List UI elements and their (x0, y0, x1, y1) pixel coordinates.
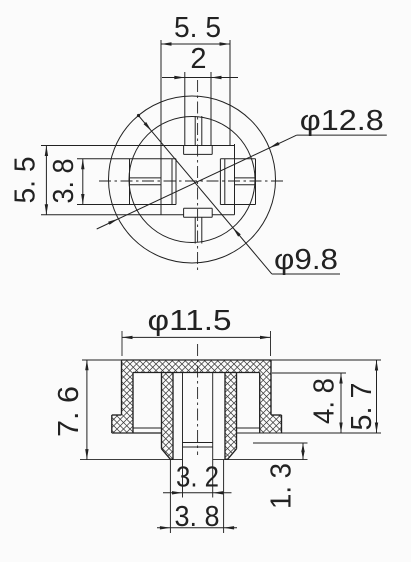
svg-text:5. 7: 5. 7 (346, 383, 378, 431)
svg-text:φ11.5: φ11.5 (148, 305, 232, 337)
svg-text:5. 5: 5. 5 (10, 157, 42, 204)
svg-text:4. 8: 4. 8 (309, 378, 341, 424)
svg-text:5. 5: 5. 5 (174, 12, 221, 44)
svg-text:φ9.8: φ9.8 (274, 244, 338, 276)
svg-text:2: 2 (190, 43, 206, 75)
svg-text:1. 3: 1. 3 (266, 463, 298, 509)
svg-text:3. 2: 3. 2 (176, 462, 219, 494)
svg-text:7. 6: 7. 6 (53, 386, 85, 437)
svg-text:φ12.8: φ12.8 (300, 105, 384, 137)
svg-text:3. 8: 3. 8 (48, 159, 80, 204)
svg-text:3. 8: 3. 8 (175, 501, 220, 533)
